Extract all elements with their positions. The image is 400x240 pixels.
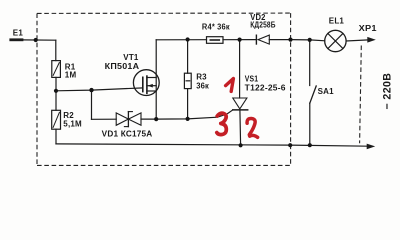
svg-text:R4* 36к: R4* 36к — [202, 22, 231, 31]
svg-text:R3: R3 — [196, 73, 207, 82]
svg-text:SA1: SA1 — [318, 87, 335, 96]
svg-text:1М: 1М — [65, 71, 77, 80]
svg-text:КП501А: КП501А — [105, 62, 140, 71]
svg-text:VD1 КС175А: VD1 КС175А — [102, 129, 153, 138]
svg-text:E1: E1 — [13, 29, 24, 38]
svg-text:XP1: XP1 — [359, 24, 377, 33]
svg-text:− 220В: − 220В — [382, 73, 394, 110]
svg-text:5,1М: 5,1М — [63, 120, 82, 129]
svg-text:36к: 36к — [196, 81, 210, 90]
svg-text:R2: R2 — [63, 111, 74, 120]
svg-text:Т122-25-6: Т122-25-6 — [245, 84, 286, 93]
svg-text:EL1: EL1 — [329, 16, 345, 25]
svg-text:VT1: VT1 — [123, 53, 139, 62]
svg-text:КД258Б: КД258Б — [250, 21, 276, 30]
svg-text:VS1: VS1 — [245, 74, 259, 83]
